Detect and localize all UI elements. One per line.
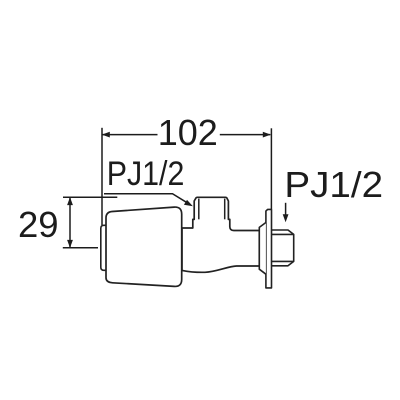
valve body outline with top PJ1/2 threaded stub [182,197,259,272]
dim 29 arrow up [67,197,73,205]
right PJ1/2 leader arrowhead [283,214,289,222]
svg-text:102: 102 [158,112,218,153]
dimension 29 line and extension lines [63,197,118,248]
right threaded male connector PJ1/2 [272,230,294,266]
svg-text:PJ1/2: PJ1/2 [107,155,185,193]
dim 29 arrow down [67,240,73,248]
hub boss on flange (fill) [259,223,266,275]
handle end cap [101,225,110,270]
dimension 102 line and extension lines [102,128,271,225]
stub thread chamfer line left [198,199,200,220]
svg-text:29: 29 [18,204,59,245]
dim 102 arrow left [102,132,110,138]
left PJ1/2 leader line [104,194,191,205]
handle knob [106,207,182,286]
svg-text:PJ1/2: PJ1/2 [284,164,383,205]
dim 102 arrow right [263,132,271,138]
right PJ1/2 leader arrow line [285,203,287,220]
hub boss on flange (outline) [259,223,266,275]
left PJ1/2 leader arrowhead [184,200,193,206]
stub thread chamfer line right [224,199,226,220]
wall flange plate [266,209,272,288]
